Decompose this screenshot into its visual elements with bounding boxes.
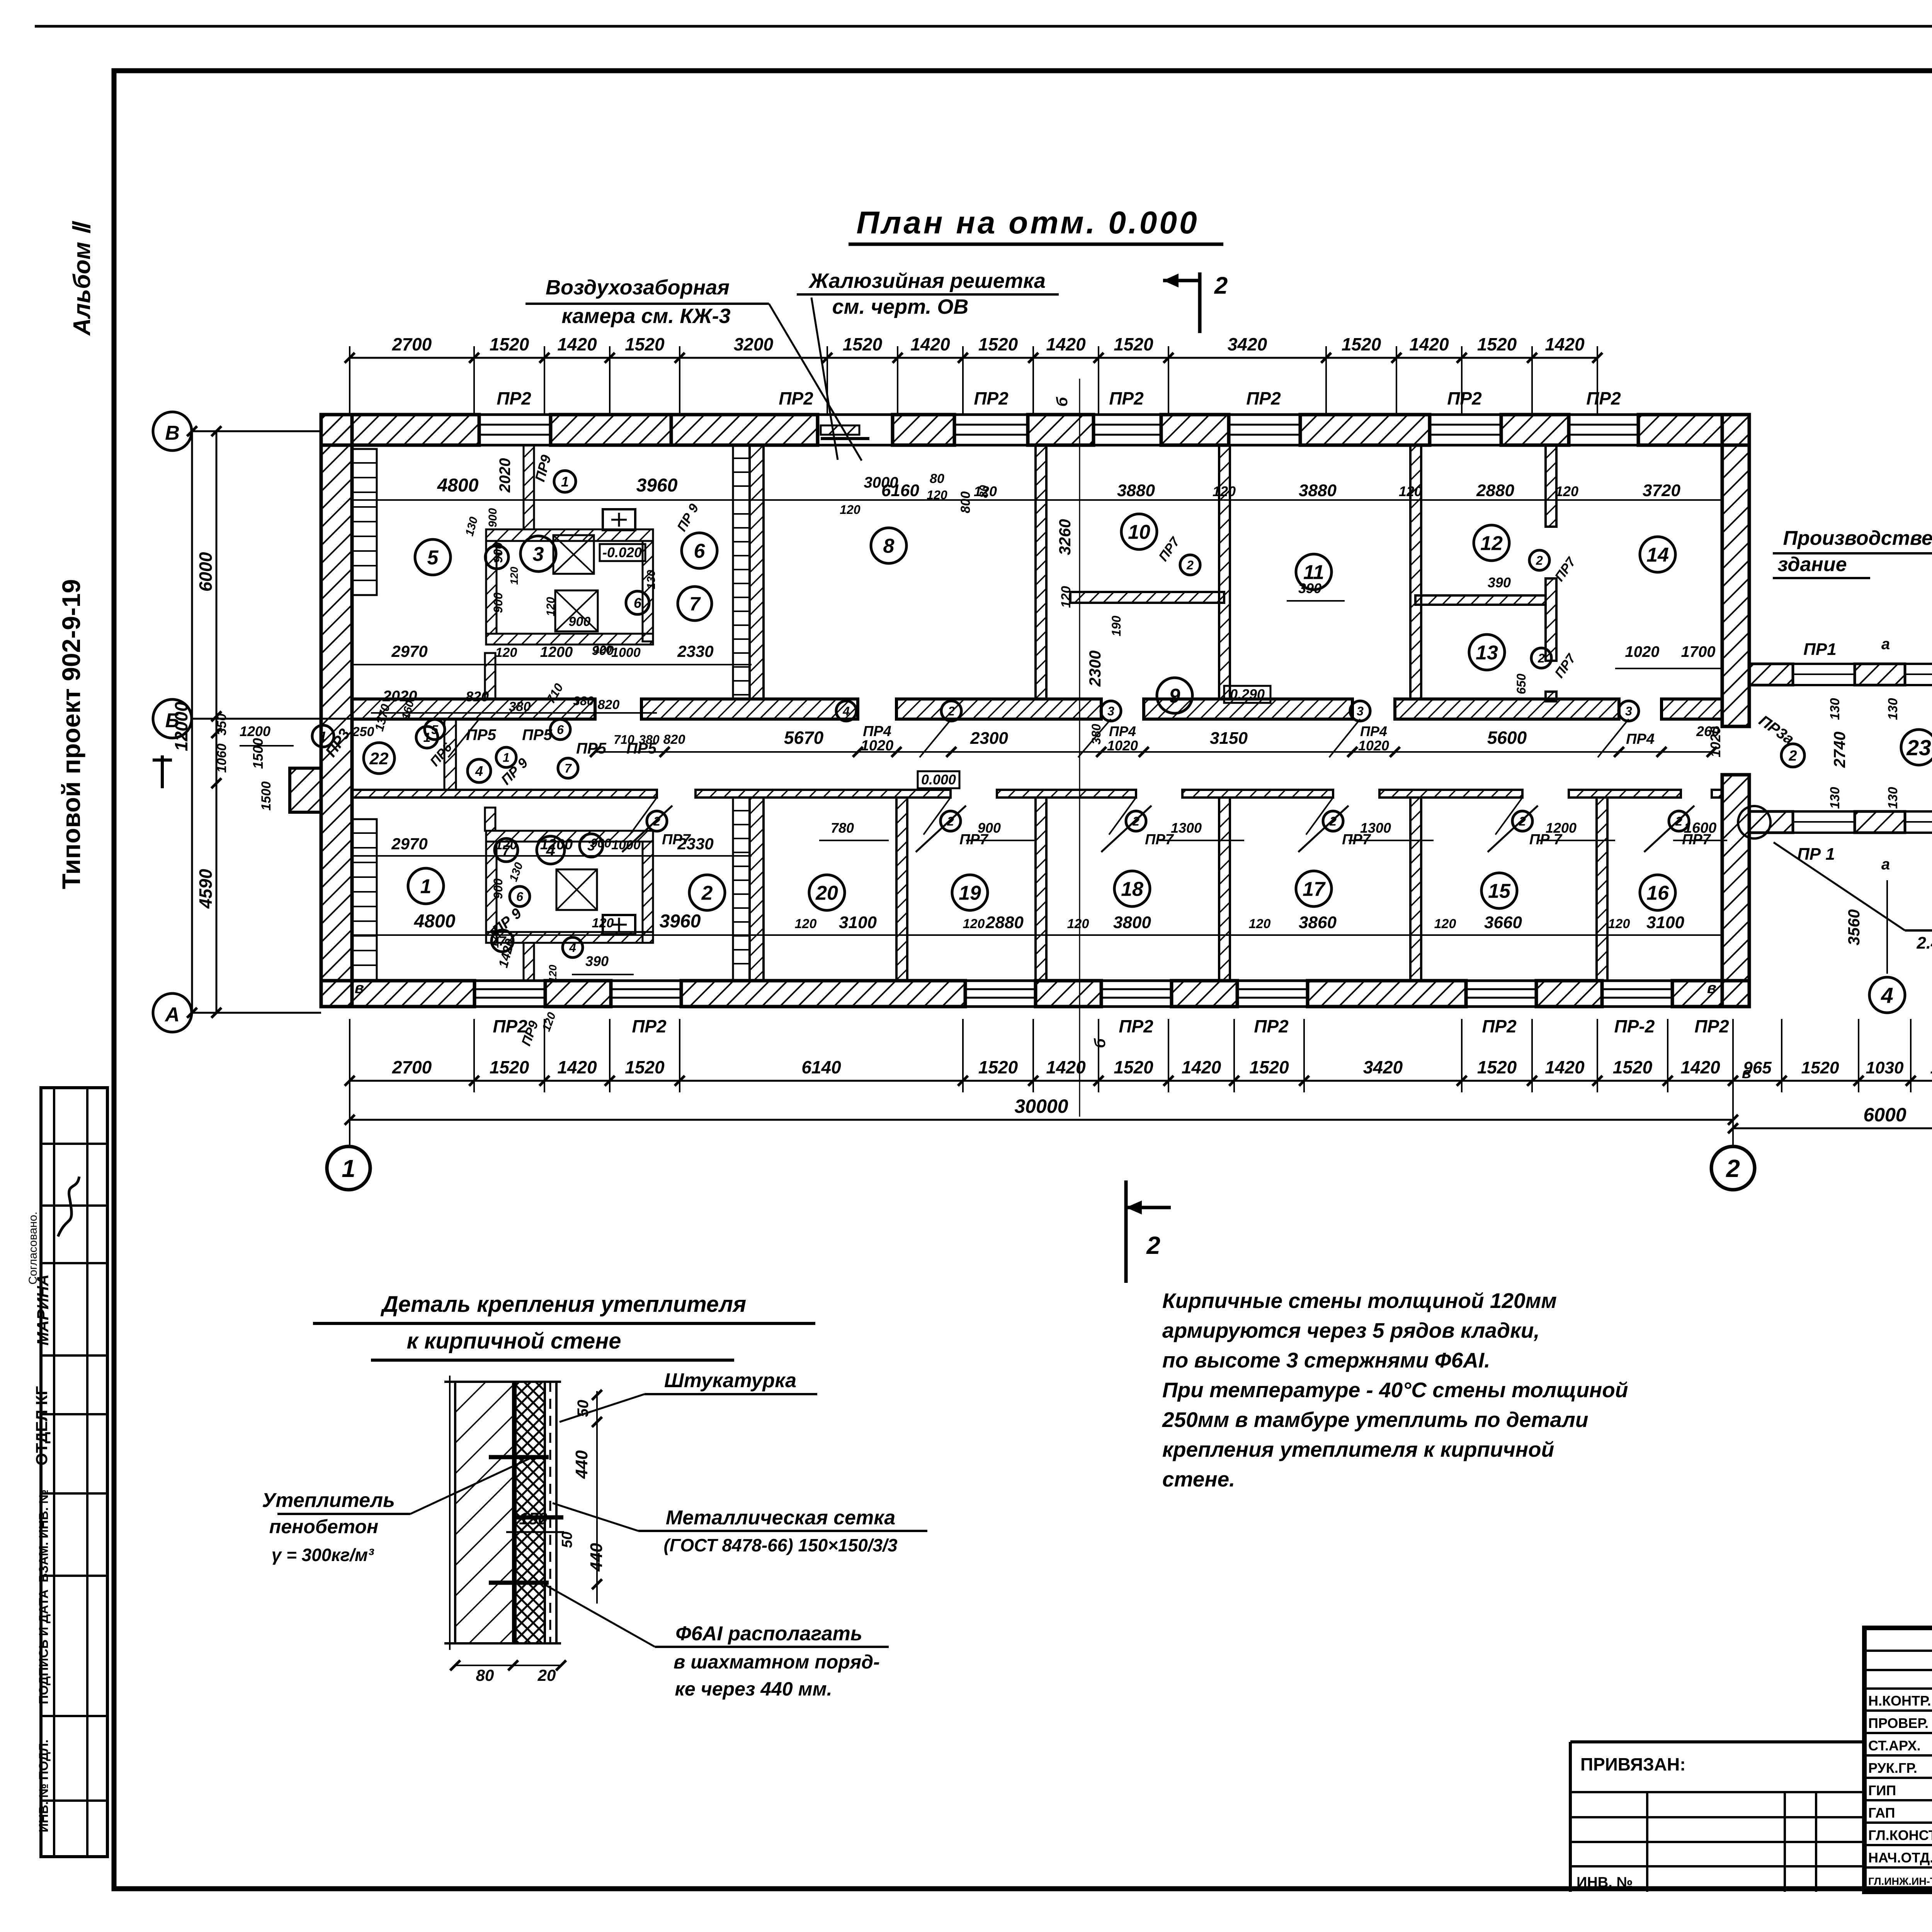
partition 12|14 upper	[1546, 445, 1556, 527]
axis B circle	[153, 412, 192, 451]
svg-text:1: 1	[342, 1155, 355, 1182]
svg-text:Н.КОНТР.: Н.КОНТР.	[1868, 1693, 1931, 1709]
svg-text:12: 12	[1480, 532, 1503, 555]
corridor dim chain	[595, 751, 1712, 753]
svg-text:ПР-2: ПР-2	[1614, 1016, 1655, 1036]
svg-text:1520: 1520	[625, 334, 665, 354]
svg-text:ПОДПИСЬ И ДАТА: ПОДПИСЬ И ДАТА	[36, 1589, 51, 1704]
svg-text:2: 2	[1536, 554, 1543, 568]
svg-text:1520: 1520	[490, 1057, 529, 1077]
svg-text:1200: 1200	[540, 644, 573, 660]
svg-text:3000: 3000	[864, 474, 898, 491]
svg-text:РУК.ГР.: РУК.ГР.	[1868, 1760, 1917, 1776]
svg-text:1420: 1420	[1545, 334, 1585, 354]
svg-text:1520: 1520	[1114, 334, 1153, 354]
svg-text:2300: 2300	[1086, 650, 1104, 687]
svg-text:ПР2: ПР2	[974, 388, 1009, 408]
svg-text:1420: 1420	[557, 1057, 597, 1077]
svg-text:1300: 1300	[1171, 820, 1202, 836]
svg-text:Утеплитель: Утеплитель	[262, 1489, 395, 1512]
partition 13|14 middle	[1546, 578, 1556, 661]
svg-text:1420: 1420	[910, 334, 950, 354]
svg-text:в: в	[355, 980, 364, 997]
detail bottom dims	[455, 1665, 561, 1666]
svg-text:ПР2: ПР2	[1119, 1016, 1153, 1036]
svg-text:(ГОСТ 8478-66) 150×150/3/3: (ГОСТ 8478-66) 150×150/3/3	[663, 1535, 897, 1555]
privyazan box	[1570, 1740, 1864, 1743]
svg-text:120: 120	[927, 488, 947, 502]
svg-text:1520: 1520	[1477, 334, 1517, 354]
bottom wall pier	[321, 981, 474, 1007]
svg-text:3860: 3860	[1299, 913, 1337, 932]
svg-text:Воздухозаборная: Воздухозаборная	[546, 276, 730, 299]
svg-text:ПР2: ПР2	[1109, 388, 1144, 408]
window PR2	[1237, 980, 1308, 982]
svg-text:800: 800	[958, 492, 973, 514]
svg-text:стене.: стене.	[1162, 1467, 1235, 1491]
svg-text:здание: здание	[1777, 553, 1847, 576]
svg-text:120: 120	[495, 645, 517, 660]
svg-text:120: 120	[1555, 483, 1578, 499]
svg-text:ПР2: ПР2	[1694, 1016, 1729, 1036]
svg-text:3880: 3880	[1117, 481, 1155, 500]
svg-text:3: 3	[1357, 704, 1364, 718]
svg-text:1420: 1420	[1680, 1057, 1720, 1077]
svg-text:3800: 3800	[1113, 913, 1151, 932]
wash basin plus box bottom	[603, 915, 635, 934]
svg-text:1420: 1420	[557, 334, 597, 354]
bottom wall pier	[681, 981, 965, 1007]
svg-text:250: 250	[352, 724, 374, 739]
svg-text:780: 780	[831, 820, 854, 836]
svg-text:1000: 1000	[611, 645, 641, 660]
svg-text:3: 3	[533, 543, 544, 566]
room9 level box 0.290	[1224, 686, 1270, 703]
axis circle 2 bottom	[1711, 1146, 1755, 1190]
svg-text:0.000: 0.000	[921, 772, 956, 787]
bottom wall pier	[1172, 981, 1237, 1007]
room number circles	[415, 539, 451, 575]
left stamp signature	[58, 1177, 79, 1236]
svg-text:3: 3	[1625, 704, 1632, 718]
svg-text:ИНВ. №: ИНВ. №	[1577, 1874, 1633, 1891]
svg-text:1420: 1420	[1545, 1057, 1585, 1077]
gallery top wall	[1749, 664, 1793, 685]
svg-text:ПР2: ПР2	[1586, 388, 1621, 408]
svg-text:1000: 1000	[611, 838, 641, 852]
svg-text:6: 6	[694, 540, 706, 563]
svg-text:120: 120	[508, 566, 520, 585]
partition 19|18	[1036, 798, 1046, 981]
svg-text:ВЗАМ. ИНВ. №: ВЗАМ. ИНВ. №	[36, 1490, 51, 1582]
svg-text:1020: 1020	[1107, 738, 1138, 753]
svg-text:ПРИВЯЗАН:: ПРИВЯЗАН:	[1580, 1754, 1686, 1774]
svg-text:6000: 6000	[1863, 1104, 1906, 1126]
top wall pier	[321, 415, 479, 445]
svg-text:120: 120	[592, 916, 614, 930]
svg-text:к кирпичной стене: к кирпичной стене	[406, 1328, 621, 1354]
svg-text:ПР4: ПР4	[1360, 723, 1387, 739]
svg-text:2300: 2300	[970, 729, 1008, 748]
svg-text:1520: 1520	[1249, 1057, 1289, 1077]
svg-text:ПР1: ПР1	[1803, 640, 1836, 659]
window PR2	[1569, 413, 1638, 416]
bottom rooms dim row	[352, 934, 1722, 936]
svg-text:см. черт. ОВ: см. черт. ОВ	[832, 295, 969, 318]
svg-text:1: 1	[320, 729, 327, 744]
svg-text:2740: 2740	[1830, 731, 1849, 768]
svg-text:камера см. КЖ-3: камера см. КЖ-3	[561, 304, 730, 328]
svg-text:1500: 1500	[259, 781, 274, 811]
axis 4 circle right	[1886, 880, 1888, 974]
svg-text:7: 7	[493, 549, 502, 565]
svg-text:При температуре - 40°С стены: При температуре - 40°С стены толщиной	[1162, 1378, 1628, 1402]
svg-text:4: 4	[475, 763, 483, 779]
svg-text:130: 130	[1886, 698, 1900, 720]
svg-text:130: 130	[1828, 698, 1842, 720]
leader air intake	[769, 304, 862, 461]
svg-text:20: 20	[815, 882, 838, 905]
svg-text:Ф6АI располагать: Ф6АI располагать	[675, 1622, 862, 1645]
svg-text:120: 120	[1213, 483, 1236, 499]
svg-text:Альбом Ⅱ: Альбом Ⅱ	[69, 221, 95, 337]
svg-text:440: 440	[587, 1543, 606, 1572]
svg-text:1030: 1030	[1866, 1058, 1904, 1077]
svg-text:2330: 2330	[677, 642, 713, 660]
section mark 2 bottom	[1124, 1180, 1128, 1283]
partition room6|8 with duct	[733, 445, 750, 699]
entrance porch left	[290, 768, 321, 812]
svg-text:380: 380	[639, 733, 660, 747]
svg-text:1520: 1520	[1930, 1058, 1932, 1077]
svg-text:120: 120	[795, 917, 817, 931]
svg-text:3200: 3200	[734, 334, 774, 354]
window PR2	[479, 413, 551, 416]
top wall pier	[671, 415, 818, 445]
svg-text:23: 23	[1906, 736, 1931, 760]
svg-text:1020: 1020	[861, 738, 894, 754]
window PR2	[1430, 413, 1501, 416]
top wall pier	[893, 415, 954, 445]
axis Б circle	[153, 699, 192, 738]
svg-text:900: 900	[978, 820, 1001, 836]
svg-text:130: 130	[1886, 787, 1900, 809]
svg-text:ПР4: ПР4	[863, 723, 891, 740]
svg-text:1700: 1700	[1681, 643, 1716, 660]
axis B line	[192, 430, 321, 432]
window PR2	[1094, 413, 1161, 416]
svg-text:1520: 1520	[978, 1057, 1018, 1077]
left wall inner lining (duct)	[352, 449, 377, 595]
svg-text:ПР2: ПР2	[1254, 1016, 1289, 1036]
window PR2	[474, 980, 545, 982]
svg-text:2: 2	[947, 704, 955, 718]
svg-text:1: 1	[561, 474, 569, 490]
svg-text:19: 19	[959, 882, 981, 905]
svg-text:1520: 1520	[490, 334, 529, 354]
level mark -0.020	[600, 544, 645, 561]
svg-text:ИНВ. № ПОДЛ.: ИНВ. № ПОДЛ.	[36, 1740, 51, 1832]
svg-text:16: 16	[1646, 882, 1669, 905]
svg-text:3: 3	[587, 838, 595, 854]
svg-text:пенобетон: пенобетон	[269, 1516, 378, 1537]
svg-text:1020: 1020	[1625, 643, 1660, 660]
svg-text:1420: 1420	[1182, 1057, 1221, 1077]
svg-text:ПР4: ПР4	[1109, 723, 1136, 739]
svg-text:120: 120	[840, 503, 861, 517]
svg-text:1520: 1520	[1342, 334, 1381, 354]
top wall pier	[1161, 415, 1229, 445]
svg-text:Кирпичные стены толщиной 120м: Кирпичные стены толщиной 120мм	[1162, 1289, 1557, 1313]
svg-text:3100: 3100	[1646, 913, 1684, 932]
svg-text:ПРОВЕР.: ПРОВЕР.	[1868, 1715, 1929, 1731]
svg-text:120: 120	[1399, 483, 1422, 499]
bottom wall pier	[1672, 981, 1749, 1007]
partition 20|19	[896, 798, 907, 981]
svg-text:а: а	[1881, 856, 1890, 873]
svg-text:2: 2	[1186, 558, 1194, 572]
svg-text:7: 7	[565, 762, 572, 776]
left exterior wall	[321, 415, 352, 1007]
top wall pier	[1028, 415, 1094, 445]
svg-text:120: 120	[1608, 917, 1630, 931]
axis circle 1 bottom	[327, 1146, 370, 1190]
svg-text:18: 18	[1121, 878, 1143, 901]
svg-text:900: 900	[491, 878, 505, 899]
detail brick wall section	[455, 1382, 513, 1643]
svg-text:120: 120	[544, 597, 557, 616]
svg-text:11: 11	[1303, 561, 1324, 584]
svg-text:3880: 3880	[1299, 481, 1337, 500]
top wall pier	[1638, 415, 1749, 445]
axis A circle	[153, 993, 192, 1032]
svg-text:ПР2: ПР2	[779, 388, 813, 408]
svg-text:1520: 1520	[1613, 1057, 1653, 1077]
svg-text:20: 20	[537, 1666, 556, 1684]
svg-text:390: 390	[585, 953, 609, 969]
svg-text:1420: 1420	[1409, 334, 1449, 354]
level box 0.000	[918, 771, 959, 788]
bottom wall pier	[1036, 981, 1101, 1007]
svg-text:80: 80	[476, 1666, 494, 1684]
svg-text:в: в	[1707, 980, 1716, 997]
svg-text:1520: 1520	[843, 334, 883, 354]
detail mesh dashed line	[549, 1382, 551, 1643]
detail ties	[489, 1455, 549, 1459]
svg-text:ПР2: ПР2	[1482, 1016, 1517, 1036]
svg-text:СТ.АРХ.: СТ.АРХ.	[1868, 1738, 1921, 1753]
bottom wall pier	[1536, 981, 1602, 1007]
window PR2	[965, 980, 1036, 982]
svg-text:380: 380	[509, 699, 531, 714]
bottom wall pier	[1308, 981, 1466, 1007]
svg-text:17: 17	[1303, 878, 1326, 901]
svg-text:2: 2	[1726, 1155, 1740, 1182]
svg-text:650: 650	[1514, 673, 1528, 694]
bottom wall pier	[545, 981, 611, 1007]
cluster top: shower/wc walls	[486, 529, 653, 541]
svg-text:2: 2	[1537, 651, 1545, 665]
svg-text:900: 900	[569, 614, 591, 629]
svg-text:380: 380	[573, 694, 594, 708]
svg-text:820: 820	[598, 697, 620, 712]
svg-text:2880: 2880	[1476, 481, 1514, 500]
top dim chain	[350, 357, 1597, 359]
svg-text:8: 8	[883, 535, 895, 558]
svg-text:2970: 2970	[391, 835, 427, 853]
svg-text:1420: 1420	[1046, 334, 1086, 354]
svg-text:120: 120	[594, 643, 612, 655]
svg-text:б: б	[1054, 396, 1071, 406]
svg-text:Производственное: Производственное	[1783, 527, 1932, 549]
svg-text:1200: 1200	[240, 723, 270, 739]
detail insulation layer	[515, 1382, 545, 1643]
svg-text:Согласовано.: Согласовано.	[27, 1212, 39, 1285]
svg-text:2020: 2020	[497, 458, 514, 493]
svg-text:80: 80	[978, 485, 990, 498]
svg-text:План на отм. 0.000: План на отм. 0.000	[856, 205, 1199, 240]
svg-text:4800: 4800	[437, 475, 479, 496]
svg-text:6: 6	[557, 723, 564, 737]
svg-text:ПР2: ПР2	[632, 1016, 667, 1036]
svg-text:120: 120	[1434, 917, 1456, 931]
svg-text:ОТДЕЛ КГ: ОТДЕЛ КГ	[32, 1386, 51, 1466]
svg-text:3960: 3960	[660, 911, 701, 932]
svg-text:в шахматном поряд-: в шахматном поряд-	[673, 1651, 880, 1673]
svg-text:Штукатурка: Штукатурка	[664, 1369, 796, 1392]
shower stall X	[553, 535, 594, 574]
svg-text:22: 22	[369, 749, 389, 768]
svg-text:ГИП: ГИП	[1868, 1782, 1896, 1798]
svg-text:ПР2: ПР2	[1447, 388, 1482, 408]
svg-text:ПР 1: ПР 1	[1797, 845, 1835, 864]
svg-text:2700: 2700	[392, 1057, 432, 1077]
svg-text:А: А	[164, 1003, 180, 1026]
svg-text:1200: 1200	[540, 837, 573, 853]
svg-text:250мм в тамбуре утеплить по: 250мм в тамбуре утеплить по детали	[1162, 1408, 1588, 1432]
svg-text:ГАП: ГАП	[1868, 1805, 1895, 1821]
svg-text:1520: 1520	[625, 1057, 665, 1077]
svg-text:ке через 440 мм.: ке через 440 мм.	[675, 1678, 832, 1700]
svg-text:390: 390	[1488, 575, 1511, 590]
svg-text:3: 3	[1107, 704, 1114, 718]
svg-text:Металлическая сетка: Металлическая сетка	[666, 1507, 895, 1529]
partition 18|17	[1219, 798, 1230, 981]
svg-text:1520: 1520	[1477, 1057, 1517, 1077]
svg-text:3660: 3660	[1484, 913, 1522, 932]
svg-text:3960: 3960	[636, 475, 678, 496]
svg-text:2700: 2700	[392, 334, 432, 354]
svg-text:30000: 30000	[1014, 1095, 1068, 1117]
room 9 wall below room 10	[1070, 592, 1224, 603]
svg-text:120: 120	[1067, 917, 1089, 931]
svg-text:820: 820	[466, 689, 489, 704]
partition 10|11	[1219, 445, 1230, 699]
partition 17|15	[1410, 798, 1421, 981]
svg-text:0.290: 0.290	[1230, 686, 1265, 702]
svg-text:2: 2	[1788, 748, 1797, 764]
svg-text:Деталь крепления утеплителя: Деталь крепления утеплителя	[380, 1292, 746, 1317]
svg-text:120: 120	[547, 964, 559, 983]
svg-text:Жалюзийная решетка: Жалюзийная решетка	[808, 269, 1046, 293]
svg-text:14: 14	[1646, 544, 1669, 566]
svg-text:ПР2: ПР2	[1246, 388, 1281, 408]
small circles cluster	[485, 546, 509, 569]
svg-text:γ = 300кг/м³: γ = 300кг/м³	[272, 1545, 374, 1565]
svg-text:12000: 12000	[171, 702, 191, 751]
left stamp column grid	[41, 1088, 107, 1857]
window PR2	[611, 980, 681, 982]
svg-text:б: б	[1092, 1038, 1109, 1048]
svg-text:710: 710	[614, 733, 634, 747]
svg-text:4: 4	[842, 704, 850, 718]
svg-text:ПР5: ПР5	[522, 726, 552, 743]
svg-text:2: 2	[1214, 272, 1228, 299]
svg-text:6000: 6000	[196, 552, 216, 592]
svg-text:3420: 3420	[1228, 334, 1267, 354]
svg-text:1: 1	[423, 730, 431, 745]
corridor lower door labels PR7	[696, 815, 1681, 816]
svg-text:2: 2	[701, 882, 713, 905]
svg-text:крепления утеплителя к кирп: крепления утеплителя к кирпичной	[1162, 1437, 1554, 1461]
partition 11|12	[1410, 445, 1421, 699]
svg-text:1520: 1520	[978, 334, 1018, 354]
cluster bottom walls	[486, 831, 653, 842]
svg-text:150: 150	[519, 1509, 548, 1528]
svg-text:2970: 2970	[391, 642, 427, 660]
svg-text:1600: 1600	[1684, 820, 1717, 836]
page top edge line	[35, 25, 1932, 28]
svg-text:3150: 3150	[1210, 729, 1248, 748]
svg-text:1500: 1500	[250, 738, 266, 769]
section mark 2 top	[1198, 272, 1202, 333]
svg-text:7: 7	[502, 842, 511, 858]
svg-text:1520: 1520	[1114, 1057, 1153, 1077]
svg-text:440: 440	[572, 1450, 591, 1479]
svg-text:МАРИНА: МАРИНА	[34, 1274, 52, 1345]
svg-text:НАЧ.ОТД.: НАЧ.ОТД.	[1868, 1850, 1932, 1866]
section mark T left	[161, 755, 164, 788]
partition 8|10	[1036, 445, 1046, 699]
svg-text:13: 13	[1476, 642, 1498, 664]
interior dim row top rooms	[352, 499, 1722, 501]
svg-text:1020: 1020	[1358, 738, 1389, 753]
svg-text:1300: 1300	[1360, 820, 1391, 836]
svg-text:130: 130	[1828, 787, 1842, 809]
window PR2	[1229, 413, 1300, 416]
svg-text:6: 6	[516, 890, 523, 904]
svg-text:3560: 3560	[1845, 909, 1863, 945]
svg-text:а: а	[1881, 636, 1890, 653]
svg-text:120: 120	[1059, 586, 1073, 608]
svg-text:-0.020: -0.020	[602, 544, 642, 560]
svg-text:120: 120	[963, 917, 985, 931]
svg-text:120: 120	[1249, 917, 1271, 931]
bottom dim chain row2 totals	[350, 1119, 1733, 1121]
svg-text:820: 820	[663, 732, 685, 747]
svg-text:4590: 4590	[196, 869, 216, 909]
svg-text:в: в	[1742, 1065, 1751, 1082]
leader louver	[811, 298, 838, 460]
detail plaster line	[555, 1382, 558, 1643]
svg-text:5: 5	[427, 547, 439, 569]
svg-text:3420: 3420	[1363, 1057, 1403, 1077]
louver grille opening	[818, 413, 893, 416]
svg-text:2880: 2880	[985, 913, 1024, 932]
room 23 circle	[1901, 730, 1932, 765]
svg-text:ГЛ.КОНСТР: ГЛ.КОНСТР	[1868, 1827, 1932, 1843]
window PR2	[1466, 980, 1536, 982]
